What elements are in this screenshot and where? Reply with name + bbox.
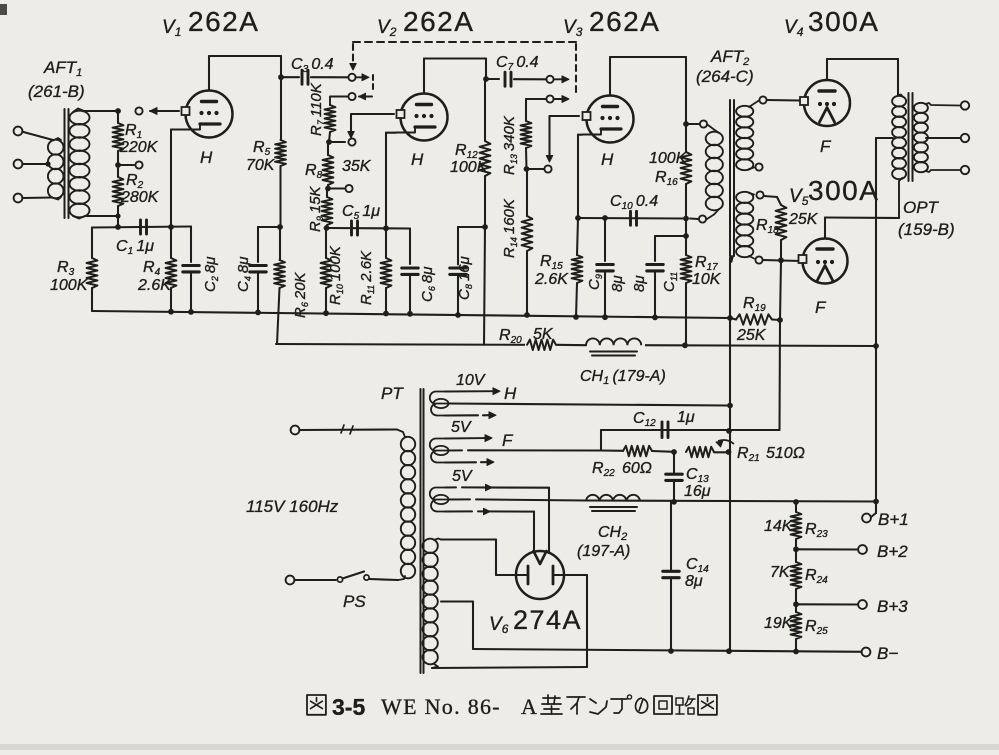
svg-text:R9 15K: R9 15K [307, 185, 325, 232]
svg-text:R13 340K: R13 340K [501, 115, 519, 175]
svg-text:C10 0.4: C10 0.4 [610, 193, 658, 212]
svg-text:8μ: 8μ [631, 275, 648, 292]
svg-text:R11 2.6K: R11 2.6K [358, 250, 376, 305]
svg-text:5V: 5V [451, 419, 472, 436]
svg-text:262A: 262A [589, 6, 660, 37]
svg-text:(197-A): (197-A) [577, 543, 630, 560]
svg-text:B+3: B+3 [877, 597, 908, 616]
svg-text:100K: 100K [50, 277, 89, 294]
svg-text:60Ω: 60Ω [622, 460, 652, 477]
svg-text:10V: 10V [456, 372, 486, 389]
svg-text:C3 0.4: C3 0.4 [291, 56, 334, 75]
svg-text:2.6K: 2.6K [534, 271, 569, 288]
svg-text:8μ: 8μ [685, 573, 703, 590]
svg-text:262A: 262A [188, 6, 259, 37]
svg-text:1μ: 1μ [677, 409, 695, 426]
svg-text:OPT: OPT [903, 198, 940, 217]
svg-text:280K: 280K [120, 189, 160, 206]
svg-text:R6 20K: R6 20K [292, 271, 310, 318]
svg-text:510Ω: 510Ω [766, 445, 805, 462]
svg-text:(264-C): (264-C) [696, 67, 754, 86]
svg-text:C4 8μ: C4 8μ [235, 257, 253, 292]
svg-text:F: F [820, 137, 832, 156]
svg-text:14K: 14K [764, 518, 794, 535]
svg-text:300A: 300A [808, 6, 879, 37]
svg-text:115V 160Hz: 115V 160Hz [246, 497, 339, 516]
svg-text:C8 16μ: C8 16μ [456, 256, 474, 300]
svg-text:C5 1μ: C5 1μ [342, 203, 380, 222]
svg-text:8μ: 8μ [609, 275, 626, 292]
svg-text:B+2: B+2 [877, 542, 908, 561]
svg-text:C7 0.4: C7 0.4 [496, 54, 539, 73]
svg-text:(261-B): (261-B) [28, 82, 85, 101]
svg-text:5V: 5V [452, 468, 473, 485]
svg-text:16μ: 16μ [684, 483, 711, 500]
svg-text:F: F [815, 298, 827, 317]
svg-text:H: H [601, 150, 614, 169]
svg-text:R7 110K: R7 110K [308, 82, 326, 136]
svg-text:C1 1μ: C1 1μ [116, 238, 154, 257]
svg-text:3-5: 3-5 [332, 694, 365, 720]
svg-text:35K: 35K [342, 158, 372, 175]
svg-text:PT: PT [381, 384, 404, 403]
svg-text:B−: B− [877, 644, 898, 663]
svg-text:H: H [411, 150, 424, 169]
svg-text:F: F [502, 431, 514, 450]
svg-text:C2 8μ: C2 8μ [202, 257, 220, 292]
svg-text:PS: PS [343, 592, 366, 611]
svg-text:100K: 100K [649, 150, 688, 167]
svg-text:70K: 70K [246, 157, 276, 174]
svg-text:274A: 274A [513, 605, 582, 635]
svg-text:H: H [200, 148, 213, 167]
svg-text:300A: 300A [808, 175, 879, 206]
svg-text:5K: 5K [533, 326, 554, 343]
svg-text:(159-B): (159-B) [898, 220, 955, 239]
svg-text:7K: 7K [770, 564, 791, 581]
svg-text:A: A [521, 694, 537, 719]
svg-text:25K: 25K [788, 211, 819, 228]
svg-text:100K: 100K [450, 159, 489, 176]
svg-text:220K: 220K [119, 139, 159, 156]
svg-text:2.6K: 2.6K [137, 277, 172, 294]
svg-text:262A: 262A [403, 6, 474, 37]
svg-text:10K: 10K [692, 271, 722, 288]
svg-text:C6 8μ: C6 8μ [419, 267, 437, 302]
svg-text:WE No. 86-: WE No. 86- [381, 694, 501, 719]
svg-text:25K: 25K [736, 327, 767, 344]
svg-text:B+1: B+1 [878, 510, 909, 529]
svg-text:19K: 19K [764, 615, 794, 632]
svg-text:R10 100K: R10 100K [327, 245, 345, 305]
svg-text:H: H [504, 384, 517, 403]
svg-text:R14 160K: R14 160K [501, 198, 519, 258]
